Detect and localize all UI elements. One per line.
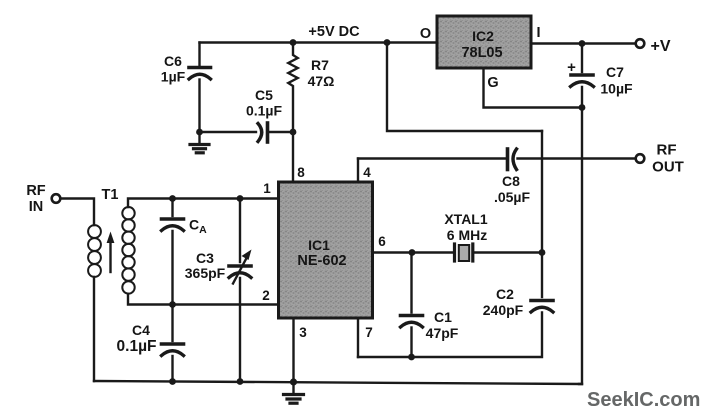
- svg-text:47Ω: 47Ω: [308, 73, 335, 89]
- label T1: [102, 187, 119, 203]
- wire C3 upper lead: [239, 199, 241, 263]
- label IC1: [308, 237, 330, 253]
- label OUT: [652, 159, 684, 176]
- watermark SeekIC.com: [587, 389, 700, 411]
- wire C2 upper lead: [541, 253, 543, 298]
- svg-text:8: 8: [297, 165, 305, 180]
- label 78L05: [461, 45, 502, 61]
- wire T1 secondary top to pin 1 line: [128, 199, 279, 208]
- wire C1 lower lead: [410, 328, 412, 358]
- junction C7 bottom / G: [579, 104, 586, 111]
- svg-text:C4: C4: [132, 322, 150, 338]
- svg-text:C1: C1: [434, 309, 452, 325]
- T1 coupling arrow: [107, 232, 115, 273]
- wire C4 lower lead: [171, 356, 173, 382]
- svg-text:C8: C8: [502, 173, 520, 189]
- capacitor C2: [531, 301, 553, 313]
- wire right vertical x=542 (crosses RF OUT, to XTAL junction): [541, 131, 543, 253]
- label CA: [189, 217, 207, 237]
- junction C1 bottom: [408, 354, 415, 361]
- ground below C6: [190, 132, 209, 153]
- svg-text:47pF: 47pF: [426, 325, 459, 341]
- wire C6 lower lead: [198, 80, 200, 133]
- resistor R7: [288, 43, 297, 133]
- svg-text:6: 6: [378, 234, 386, 249]
- junction CA top on pin1 line: [169, 195, 176, 202]
- label XTAL1: [444, 211, 488, 227]
- svg-text:+5V DC: +5V DC: [308, 24, 360, 40]
- wire pin 6 lead: [373, 251, 413, 253]
- label 240pF: [483, 302, 524, 318]
- transformer T1 secondary winding: [122, 207, 134, 294]
- label IC2: [472, 28, 494, 44]
- wire RF OUT line right of C8: [518, 157, 636, 159]
- label C6: [164, 53, 182, 69]
- terminal RF OUT: [636, 154, 645, 163]
- svg-text:6 MHz: 6 MHz: [447, 227, 487, 243]
- wire RF OUT line left of C8: [358, 157, 505, 159]
- junction CA/C4 on pin2 line: [169, 301, 176, 308]
- label +5V DC: [308, 24, 360, 40]
- label + (C7 polarity): [567, 59, 576, 76]
- svg-text:C2: C2: [496, 286, 514, 302]
- label O (IC2 output pin): [420, 26, 431, 42]
- wire C3 lower lead (crosses pin2 line) to ground rail: [239, 278, 241, 382]
- junction XTAL right / C2: [539, 249, 546, 256]
- label 1µF: [161, 69, 186, 85]
- svg-text:78L05: 78L05: [461, 45, 502, 61]
- svg-text:1: 1: [263, 181, 271, 196]
- junction pin3 on ground rail: [290, 378, 297, 385]
- junction C4 bottom on ground rail: [169, 378, 176, 385]
- pin number 7: [365, 325, 373, 340]
- wire IC2 output to +V terminal: [531, 42, 636, 44]
- svg-text:+: +: [567, 59, 576, 76]
- pin number 6: [378, 234, 386, 249]
- wire ground rail: [94, 381, 582, 384]
- wire T1 secondary bottom to pin 2 line: [128, 294, 279, 305]
- svg-text:RF: RF: [26, 183, 45, 199]
- svg-text:C3: C3: [196, 250, 214, 266]
- wire C7 upper lead: [581, 44, 583, 73]
- label IN: [29, 199, 44, 215]
- wire XTAL1 to junction: [475, 251, 543, 253]
- svg-text:NE-602: NE-602: [297, 253, 346, 269]
- pin number 2: [262, 288, 270, 303]
- capacitor C6: [189, 68, 211, 80]
- junction R7 top on +5V rail: [290, 39, 297, 46]
- wire C1 upper lead: [410, 253, 412, 313]
- capacitor C4: [162, 344, 184, 356]
- svg-text:O: O: [420, 26, 431, 42]
- label RF (in): [26, 183, 45, 199]
- label R7: [311, 57, 329, 73]
- pin number 8: [297, 165, 305, 180]
- svg-text:XTAL1: XTAL1: [444, 211, 488, 227]
- crystal XTAL1: [455, 244, 473, 261]
- pin number 4: [363, 165, 371, 180]
- junction +5V rail to XTAL feed: [384, 39, 391, 46]
- wire IC2 G pin to C7 bottom: [484, 68, 583, 108]
- terminal RF IN: [52, 194, 61, 203]
- svg-text:IC1: IC1: [308, 237, 330, 253]
- svg-text:IC2: IC2: [472, 28, 494, 44]
- junction C5/R7/pin8: [290, 129, 297, 136]
- svg-text:0.1µF: 0.1µF: [246, 103, 283, 119]
- svg-text:240pF: 240pF: [483, 302, 524, 318]
- capacitor CA: [162, 219, 184, 231]
- wire C2 lower lead and bottom of xtal loop: [358, 313, 542, 358]
- svg-text:365pF: 365pF: [185, 265, 226, 281]
- wire C4 upper lead: [171, 305, 173, 342]
- wire T1 primary bottom to ground rail: [93, 277, 95, 381]
- variable capacitor C3: [229, 250, 252, 284]
- svg-text:10µF: 10µF: [600, 81, 633, 97]
- wire CA lower lead: [171, 231, 173, 305]
- junction C3 bottom on ground rail: [237, 378, 244, 385]
- IC2 78L05 regulator box: [437, 16, 531, 68]
- svg-text:R7: R7: [311, 57, 329, 73]
- label C7: [606, 64, 624, 80]
- svg-text:C7: C7: [606, 64, 624, 80]
- pin number 3: [299, 325, 307, 340]
- wire pin6 to XTAL1: [412, 251, 452, 253]
- svg-text:SeekIC.com: SeekIC.com: [587, 389, 700, 411]
- label C3: [196, 250, 214, 266]
- svg-text:0.1µF: 0.1µF: [117, 338, 157, 355]
- junction C3 top on pin1 line: [237, 195, 244, 202]
- label C1: [434, 309, 452, 325]
- wire pin 7 stub: [357, 318, 359, 357]
- label 6 MHz: [447, 227, 487, 243]
- svg-text:OUT: OUT: [652, 159, 684, 176]
- wire C6 branch upper lead: [198, 43, 200, 66]
- svg-text:3: 3: [299, 325, 307, 340]
- wire pin 4 stub: [357, 159, 359, 183]
- svg-text:G: G: [487, 75, 498, 91]
- svg-text:T1: T1: [102, 187, 119, 203]
- wire C5 right lead: [270, 131, 294, 133]
- label RF (out): [657, 142, 677, 159]
- capacitor C5: [258, 123, 268, 142]
- label NE-602: [297, 253, 346, 269]
- label 0.1µF (C5): [246, 103, 283, 119]
- svg-text:C5: C5: [255, 87, 273, 103]
- label +V: [651, 38, 671, 55]
- label C8: [502, 173, 520, 189]
- junction C7 top on +V wire: [579, 40, 586, 47]
- svg-text:2: 2: [262, 288, 270, 303]
- label C4: [132, 322, 150, 338]
- pin number 1: [263, 181, 271, 196]
- capacitor C7: [571, 75, 594, 87]
- ground below pin 3: [284, 382, 304, 403]
- capacitor C8: [508, 149, 517, 170]
- svg-text:1µF: 1µF: [161, 69, 186, 85]
- label 10µF: [600, 81, 633, 97]
- label 47Ω: [308, 73, 335, 89]
- wire +5V rail (C6 top to IC2 pin O): [200, 41, 438, 43]
- wire +5V down-right feed (to x=542 vertical): [387, 43, 542, 132]
- label .05µF: [494, 189, 531, 205]
- terminal +V: [636, 39, 645, 48]
- wire CA upper lead: [171, 199, 173, 217]
- wire RF IN to T1 primary: [61, 199, 95, 226]
- junction pin6/C1: [409, 249, 416, 256]
- svg-text:+V: +V: [651, 38, 671, 55]
- label I (IC2 input pin): [536, 25, 540, 41]
- wire C7 lower lead and down to ground rail: [579, 87, 582, 384]
- wire pin 3 stub to ground rail: [292, 318, 294, 382]
- label G (IC2 ground pin): [487, 75, 498, 91]
- label 0.1µF (C4): [117, 338, 157, 355]
- svg-text:.05µF: .05µF: [494, 189, 531, 205]
- label C2: [496, 286, 514, 302]
- wire C5 left lead: [200, 131, 257, 133]
- svg-text:7: 7: [365, 325, 373, 340]
- svg-text:IN: IN: [29, 199, 44, 215]
- svg-text:I: I: [536, 25, 540, 41]
- capacitor C1: [401, 316, 423, 328]
- junction C6/C5/ground: [196, 129, 203, 136]
- label C5: [255, 87, 273, 103]
- IC1 NE-602 box: [279, 182, 373, 318]
- label 365pF: [185, 265, 226, 281]
- svg-text:4: 4: [363, 165, 371, 180]
- transformer T1 primary winding: [88, 225, 101, 277]
- svg-text:C6: C6: [164, 53, 182, 69]
- svg-text:RF: RF: [657, 142, 677, 159]
- label 47pF: [426, 325, 459, 341]
- wire pin 8 stub (R7/C5 junction down to IC1): [292, 132, 294, 182]
